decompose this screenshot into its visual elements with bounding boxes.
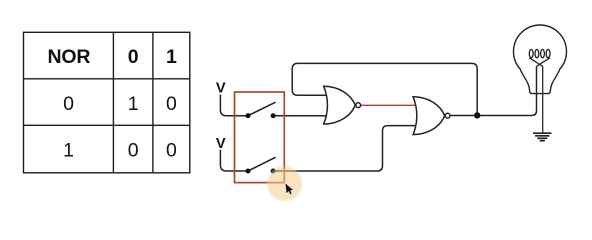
- cursor pointer: [285, 183, 293, 194]
- svg-text:V: V: [216, 136, 226, 152]
- svg-text:V: V: [216, 81, 226, 97]
- svg-text:1: 1: [166, 46, 177, 68]
- wire U2 output to junction and to lamp: [450, 66, 537, 115]
- wire V1 to switch S1: [220, 95, 248, 116]
- switch S1: [246, 102, 276, 118]
- svg-text:0: 0: [166, 93, 177, 115]
- red highlight rectangle around switches: [235, 92, 285, 183]
- wire switch S1 to gate U1 lower input: [273, 115, 329, 117]
- svg-text:NOR: NOR: [48, 46, 91, 68]
- svg-text:1: 1: [128, 93, 139, 115]
- feedback wire: junction to gate U1 upper input: [292, 63, 477, 115]
- red wire U1 output to U2 upper input: [361, 104, 418, 106]
- NOR gate U1: [324, 86, 361, 124]
- NOR gate U2: [413, 97, 450, 135]
- truth table: [24, 32, 190, 173]
- svg-text:0: 0: [166, 140, 177, 162]
- svg-text:0: 0: [128, 140, 139, 162]
- lamp filament coils: [529, 49, 550, 57]
- lamp lead-in wires (crossed): [529, 58, 542, 133]
- svg-text:0: 0: [128, 46, 139, 68]
- lamp bulb outline: [514, 25, 567, 94]
- wire switch S2 to gate U2 lower input: [273, 126, 418, 171]
- wire V2 to switch S2: [220, 150, 248, 171]
- svg-text:0: 0: [63, 93, 74, 115]
- cursor halo: [267, 166, 302, 201]
- svg-text:1: 1: [63, 140, 74, 162]
- junction node dot: [474, 112, 480, 118]
- switch S2: [246, 157, 276, 173]
- ground: [533, 133, 552, 141]
